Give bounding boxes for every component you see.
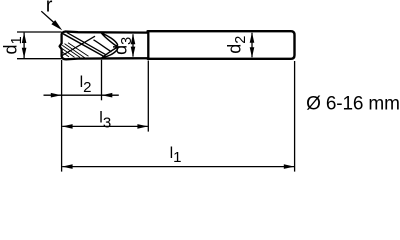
flute crossing diagonal <box>62 36 95 55</box>
l1 right extension line <box>294 61 296 172</box>
svg-text:l3: l3 <box>99 110 111 132</box>
l1 dimension line <box>62 166 294 168</box>
svg-text:Ø 6-16 mm: Ø 6-16 mm <box>306 93 400 114</box>
d1 arrowhead down <box>22 48 27 58</box>
svg-text:l2: l2 <box>80 74 92 96</box>
left shared extension line <box>61 60 63 172</box>
d1 dimension line <box>23 33 25 59</box>
upper flute end petal <box>102 33 118 46</box>
d1 extension line bottom <box>17 58 62 60</box>
cutter head and neck outline <box>60 32 149 60</box>
neck step line <box>147 32 149 60</box>
r leader arrow <box>41 11 54 22</box>
flute diagonal edge upper <box>63 34 104 57</box>
shank <box>148 31 295 59</box>
l3 dimension line <box>62 125 148 127</box>
svg-text:l1: l1 <box>170 145 182 166</box>
flute diagonal edge parallel <box>67 33 106 55</box>
d1 extension line top <box>17 31 62 33</box>
d3 dimension arrow <box>132 34 134 56</box>
svg-text:d1: d1 <box>1 36 26 54</box>
svg-text:r: r <box>46 0 53 17</box>
l2 dimension line with outside arrows <box>44 94 119 96</box>
l2 right extension line <box>101 60 103 101</box>
flute hatching strokes <box>62 43 88 58</box>
lower flute end petal <box>102 48 117 58</box>
flute middle line <box>94 40 112 52</box>
d1 arrowhead up <box>22 33 27 43</box>
l3 right extension line <box>147 61 149 132</box>
d2 dimension arrow <box>251 33 253 57</box>
